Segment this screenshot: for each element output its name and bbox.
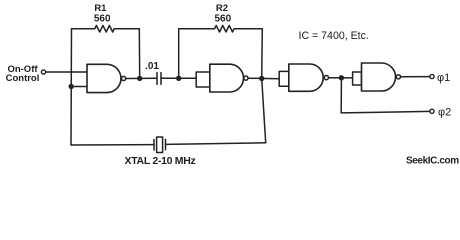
NAND gate U1c body — [289, 64, 323, 91]
wire: phi2 branch vertical — [340, 78, 342, 113]
gate U1d tied-input box — [353, 72, 362, 85]
terminal: phi2 output — [430, 109, 434, 113]
resistor R2 (560) top wire with zigzag — [179, 25, 263, 32]
wire: crystal right leg — [262, 79, 266, 143]
terminal: On-Off Control input — [41, 70, 45, 74]
op-amp? no: NAND gate U1a body — [87, 64, 121, 92]
wire: R2 right leg down to gate U1b output node — [261, 29, 264, 79]
gate U1c tied-input box — [279, 71, 289, 86]
wire: gate U1b output to gate U1c input — [248, 77, 279, 80]
NAND gate U1d output bubble — [396, 75, 400, 79]
svg-text:IC = 7400, Etc.: IC = 7400, Etc. — [299, 30, 369, 42]
NAND gate U1c output bubble — [324, 76, 328, 80]
NAND gate U1d body — [362, 63, 396, 91]
svg-text:φ2: φ2 — [438, 106, 451, 118]
node: junction at gate U1a lower input — [69, 84, 74, 89]
svg-text:R2: R2 — [216, 3, 228, 14]
svg-text:XTAL 2-10 MHz: XTAL 2-10 MHz — [125, 155, 196, 167]
wire: crystal bottom left segment — [71, 144, 154, 146]
node: junction gate U1a output / R1 leg — [137, 76, 142, 81]
wire: input terminal to gate U1a top input — [46, 71, 88, 73]
capacitor .01 plates — [156, 73, 158, 85]
NAND gate U1b body — [210, 64, 244, 92]
gate U1b tied-input box — [196, 72, 210, 87]
wire: phi2 branch horizontal — [341, 111, 430, 113]
wire: gate U1c output to gate U1d input — [329, 77, 353, 79]
crystal XTAL 2-10 MHz — [154, 137, 166, 153]
node: junction gate U1c output / phi2 branch — [339, 75, 344, 80]
wire: gate U1a output to capacitor — [126, 77, 157, 79]
NAND gate U1a output bubble — [122, 76, 126, 80]
svg-text:.01: .01 — [145, 61, 159, 72]
terminal: phi1 output — [430, 74, 434, 78]
wire: R1 right leg down to gate U1a output node — [138, 29, 140, 79]
svg-text:SeekIC.com: SeekIC.com — [406, 156, 459, 167]
node: junction gate U1b output / crystal leg — [259, 76, 264, 81]
svg-text:R1: R1 — [94, 3, 107, 14]
wire: R2 left leg — [178, 29, 180, 79]
resistor R1 (560) top wire with zigzag — [72, 25, 140, 32]
svg-text:560: 560 — [214, 14, 231, 25]
svg-text:φ1: φ1 — [437, 72, 450, 84]
wire: junction to gate U1a lower input — [71, 86, 87, 88]
NAND gate U1b output bubble — [244, 76, 248, 80]
wire: capacitor to R2 node — [161, 77, 196, 79]
wire: gate U1d output to phi1 terminal — [401, 76, 430, 78]
wire: vertical bus (R1 feedback / crystal) at left — [70, 29, 73, 145]
wire: crystal bottom right segment — [166, 143, 266, 145]
svg-text:Control: Control — [6, 73, 40, 84]
node: junction R2 left leg — [176, 76, 181, 81]
svg-text:560: 560 — [94, 14, 111, 25]
